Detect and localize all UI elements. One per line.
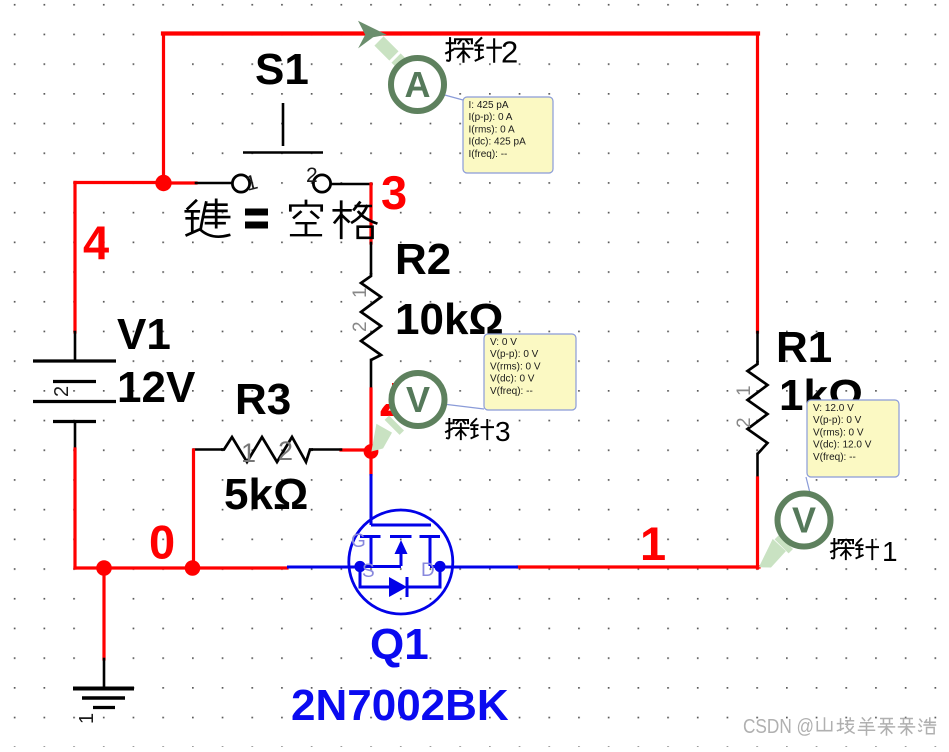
text jian (key) of "key = space" <box>186 200 229 237</box>
svg-text:2: 2 <box>501 35 518 70</box>
junction node 4 <box>155 175 171 191</box>
wire R1 top lead <box>756 332 759 361</box>
svg-text:1: 1 <box>241 438 256 468</box>
svg-text:S: S <box>362 561 375 582</box>
svg-text:0: 0 <box>149 516 175 569</box>
probe 1 label 探针1 <box>831 539 878 559</box>
probe 3 voltmeter circle <box>392 373 445 426</box>
svg-text:4: 4 <box>83 216 109 269</box>
svg-text:V(dc): 0 V: V(dc): 0 V <box>490 374 535 385</box>
wire switch left stub red <box>164 181 197 184</box>
svg-text:I(freq): --: I(freq): -- <box>469 149 508 160</box>
resistor R3 zigzag <box>221 437 313 462</box>
svg-text:1: 1 <box>76 713 98 724</box>
svg-text:3: 3 <box>495 416 511 447</box>
probe 2 label 探针2 <box>446 38 501 62</box>
Q1 source rail <box>360 565 401 568</box>
wire R3 right lead black <box>313 448 341 451</box>
wire R2 to node 2 red <box>369 389 372 452</box>
Q1 body arrow <box>395 540 408 554</box>
wire R2 bottom lead <box>370 360 373 389</box>
svg-text:I(dc): 425 pA: I(dc): 425 pA <box>469 137 527 148</box>
probe 2 (ammeter) arrow tail <box>374 36 405 67</box>
Q1 channel dash source <box>360 535 381 538</box>
probe 3 arrow tail <box>371 424 392 452</box>
svg-text:R1: R1 <box>776 323 832 372</box>
junction node 2 <box>364 444 379 459</box>
svg-text:2: 2 <box>306 164 318 187</box>
probe 1 tooltip box <box>807 400 899 477</box>
svg-text:5kΩ: 5kΩ <box>224 470 308 519</box>
probe 3 label 探针3 <box>446 419 493 439</box>
switch S1 actuator <box>243 103 323 153</box>
wire right vertical upper (to R1 pin 1) <box>756 34 759 333</box>
svg-text:V: V <box>792 500 816 541</box>
wire left vertical upper (node 4) <box>162 34 165 185</box>
svg-text:Q1: Q1 <box>370 620 429 669</box>
svg-text:V: 12.0 V: V: 12.0 V <box>813 403 854 414</box>
svg-text:3: 3 <box>381 166 407 219</box>
svg-text:R3: R3 <box>235 375 291 424</box>
某 <box>879 719 895 736</box>
junction node 0 right <box>185 560 201 576</box>
WATERMARK <box>743 716 935 738</box>
Q1 body circle <box>349 510 453 614</box>
wire bottom left horizontal (node 0) <box>75 566 287 569</box>
wire switch left lead black <box>196 182 232 185</box>
wire R1 bottom lead <box>756 454 759 478</box>
wire node 3 vertical red <box>369 184 372 243</box>
浩 <box>919 718 936 734</box>
wire left vertical to battery plus <box>73 183 76 333</box>
CHINESE TEXT <box>186 200 376 238</box>
probe 3 tooltip box <box>484 334 576 410</box>
resistor R1 zigzag <box>748 361 768 454</box>
wire bottom right horizontal (node 1) <box>518 565 759 568</box>
equals sign of "key = space" <box>245 209 268 229</box>
svg-text:12V: 12V <box>117 363 196 412</box>
probe 2 callout line <box>441 94 463 100</box>
wire R3 left vertical red <box>192 450 195 568</box>
svg-text:2: 2 <box>278 436 293 466</box>
PROBES <box>358 21 899 568</box>
wire left horizontal (node 4) <box>75 181 164 184</box>
wire R3 right stub red <box>341 448 373 451</box>
probe 1 callout line <box>806 477 810 493</box>
svg-text:V(freq): --: V(freq): -- <box>813 452 856 463</box>
wire top horizontal (net 3 to ammeter) <box>163 31 758 35</box>
Q1 channel dash drain <box>420 535 441 538</box>
svg-text:V(rms): 0 V: V(rms): 0 V <box>490 361 541 372</box>
svg-text:A: A <box>405 64 431 105</box>
switch S1 contact 2 <box>313 175 330 192</box>
wire ground lead black <box>103 659 106 688</box>
svg-text:CSDN @: CSDN @ <box>743 716 814 738</box>
probe 2 ammeter circle <box>391 58 444 111</box>
Q1 gate bar <box>371 524 431 527</box>
Q1 body diode path <box>360 566 390 587</box>
probe 1 voltmeter circle <box>778 494 831 547</box>
Q1 diode triangle <box>389 577 407 597</box>
svg-text:2: 2 <box>350 321 371 332</box>
svg-text:R2: R2 <box>395 235 451 284</box>
svg-text:V1: V1 <box>117 310 171 359</box>
Q1 drain dot <box>434 561 445 572</box>
Q1 drain pin wire <box>440 566 518 569</box>
svg-text:I(rms): 0 A: I(rms): 0 A <box>469 124 515 135</box>
svg-text:D: D <box>421 560 435 581</box>
svg-text:1: 1 <box>882 536 898 567</box>
wire battery top lead <box>74 332 77 360</box>
羊 <box>859 718 875 735</box>
svg-text:V: V <box>406 379 430 420</box>
Q1 source pin wire <box>287 566 360 569</box>
switch S1 contact 1 <box>232 175 249 192</box>
transistor Q1 MOSFET 2N7002BK <box>287 474 518 614</box>
Q1 body vertical <box>400 554 403 566</box>
svg-text:2: 2 <box>51 386 73 397</box>
svg-text:V(freq): --: V(freq): -- <box>490 386 533 397</box>
svg-text:1: 1 <box>640 517 666 570</box>
svg-text:G: G <box>351 531 366 552</box>
某 <box>899 719 915 736</box>
ground symbol <box>73 689 134 708</box>
resistor R2 zigzag <box>361 273 381 360</box>
Q1 channel dash body <box>390 535 412 538</box>
wire switch right lead black <box>331 183 372 186</box>
wire R3 left lead black <box>194 448 221 451</box>
svg-text:I: 425 pA: I: 425 pA <box>469 100 509 111</box>
svg-text:V(rms): 0 V: V(rms): 0 V <box>813 427 864 438</box>
svg-text:S1: S1 <box>255 45 309 94</box>
wire battery minus down (node 0) <box>73 449 76 568</box>
probe 2 tooltip box <box>463 97 553 173</box>
Q1 drain rail <box>430 565 440 568</box>
svg-text:V(p-p): 0 V: V(p-p): 0 V <box>813 415 862 426</box>
svg-text:V(dc): 12.0 V: V(dc): 12.0 V <box>813 440 872 451</box>
山 <box>817 718 831 731</box>
Q1 drain vertical <box>429 537 432 567</box>
坡 <box>838 718 855 733</box>
junction node 0 left <box>96 560 112 576</box>
svg-text:2N7002BK: 2N7002BK <box>291 681 509 730</box>
svg-text:V(p-p): 0 V: V(p-p): 0 V <box>490 349 539 360</box>
Q1 source vertical <box>370 537 373 567</box>
svg-text:I(p-p): 0 A: I(p-p): 0 A <box>469 112 513 123</box>
probe 1 arrow tail <box>759 539 786 568</box>
probe 3 callout line <box>443 404 484 409</box>
text kong (space) of "key = space" <box>290 201 321 235</box>
Q1 diode cathode bar <box>406 577 409 597</box>
probe 2 (ammeter) arrow head <box>358 21 387 49</box>
svg-text:1: 1 <box>734 385 755 396</box>
battery V1 <box>33 361 116 422</box>
svg-text:V: 0 V: V: 0 V <box>490 337 517 348</box>
svg-text:1: 1 <box>350 287 371 298</box>
svg-text:2: 2 <box>734 417 755 428</box>
wire ground drop red <box>102 568 105 659</box>
wire node 2 to gate red <box>369 452 372 474</box>
wire battery bottom lead <box>74 422 77 449</box>
wire right vertical lower (node 1) <box>756 478 759 568</box>
text ge (grid) of "key = space" <box>334 202 376 238</box>
wire R2 top lead <box>370 243 373 273</box>
Q1 gate lead from node 2 <box>370 474 373 525</box>
Q1 source dot <box>354 561 365 572</box>
